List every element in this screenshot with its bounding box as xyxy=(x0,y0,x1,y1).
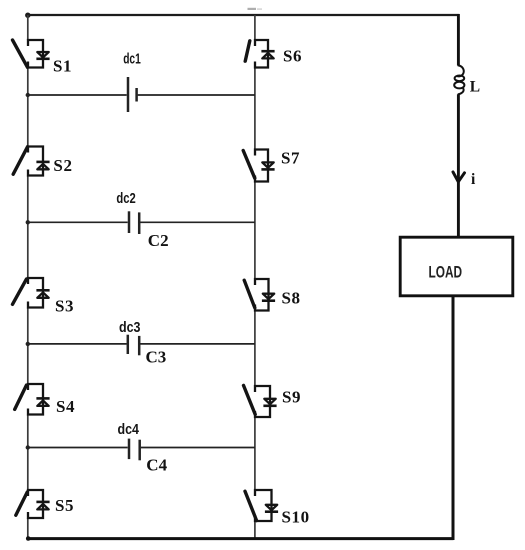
LOAD box xyxy=(400,237,513,296)
svg-text:S1: S1 xyxy=(53,57,72,76)
diode of S3 (pointing up) xyxy=(36,289,49,292)
decorative faint smudge above top rail xyxy=(248,8,257,10)
blade of S2 xyxy=(13,147,27,175)
svg-text:S6: S6 xyxy=(283,47,302,66)
switch S9 xyxy=(244,385,277,417)
capacitor dc4 / C4 xyxy=(28,439,255,461)
svg-text:i: i xyxy=(471,171,476,188)
svg-text:LOAD: LOAD xyxy=(429,263,463,282)
wire: middle column, rail to S6 xyxy=(254,15,256,40)
svg-text:C3: C3 xyxy=(146,348,167,367)
wire: left column, rail to S1 xyxy=(27,15,29,40)
switch S6 xyxy=(245,40,274,68)
svg-text:S2: S2 xyxy=(53,156,72,175)
switch S10 xyxy=(245,490,278,521)
svg-text:dc2: dc2 xyxy=(116,190,135,207)
wire: right branch, rail to inductor xyxy=(457,14,460,66)
wire: top rail xyxy=(27,14,459,16)
wire: middle column, S10 to bottom rail xyxy=(254,521,256,538)
svg-text:C2: C2 xyxy=(148,231,169,250)
svg-text:dc3: dc3 xyxy=(119,319,141,336)
svg-text:S4: S4 xyxy=(56,397,75,416)
diode of S10 (pointing down) xyxy=(266,505,277,510)
node: bottom-left corner dot xyxy=(26,536,31,541)
switch S8 xyxy=(244,279,275,311)
arrowhead: current direction i xyxy=(453,172,465,182)
svg-text:dc4: dc4 xyxy=(118,421,140,438)
switch S5 xyxy=(16,490,50,518)
svg-text:S9: S9 xyxy=(282,388,301,407)
switch S7 xyxy=(243,150,274,182)
svg-text:S10: S10 xyxy=(282,508,310,527)
wire: left column, S2 to S3 xyxy=(27,176,29,279)
diode of S6 (pointing up) xyxy=(261,50,274,53)
svg-text:S7: S7 xyxy=(281,149,300,168)
blade of S3 xyxy=(13,279,27,304)
capacitor dc1 xyxy=(28,77,255,112)
svg-text:S3: S3 xyxy=(55,296,74,315)
blade of S6 xyxy=(245,41,250,61)
blade of S4 xyxy=(15,385,27,409)
diode of S8 (pointing down) xyxy=(263,294,274,299)
wire: left column, S5 to bottom rail xyxy=(27,518,29,538)
wire: middle column, S6 to S7 xyxy=(254,68,256,150)
wire: middle column, S7 to S8 xyxy=(254,182,256,280)
svg-text:dc1: dc1 xyxy=(123,51,141,68)
blade of S10 xyxy=(245,491,257,520)
wire: left column, S1 to S2 xyxy=(27,68,29,147)
wire: right branch, inductor to LOAD xyxy=(457,94,460,236)
diode of S5 (pointing up) xyxy=(36,501,49,504)
switch S2 xyxy=(13,147,49,176)
blade of S1 xyxy=(13,40,28,67)
svg-text:C4: C4 xyxy=(146,455,167,474)
svg-text:S5: S5 xyxy=(55,496,74,515)
inductor L xyxy=(454,65,464,94)
wire: middle column, S9 to S10 xyxy=(254,417,256,490)
diode of S4 (pointing up) xyxy=(36,397,49,400)
blade of S9 xyxy=(244,385,256,414)
svg-text:L: L xyxy=(470,78,480,95)
node: junction of dc1 line with left column xyxy=(26,93,30,97)
node: junction of dc3 line with left column xyxy=(26,342,30,346)
node: junction of dc4 line with left column xyxy=(26,445,30,449)
wire: left column, S3 to S4 xyxy=(27,308,29,385)
diode of S1 (pointing down) xyxy=(37,52,48,57)
blade of S8 xyxy=(244,280,255,308)
node: junction of dc2 line with left column xyxy=(26,220,30,224)
diode of S9 (pointing down) xyxy=(264,399,275,404)
diode of S7 (pointing down) xyxy=(262,162,273,167)
switch S4 xyxy=(15,384,50,415)
blade of S7 xyxy=(243,151,255,179)
capacitor dc2 / C2 xyxy=(28,211,255,234)
switch S1 xyxy=(13,40,50,68)
diode of S2 (pointing up) xyxy=(36,161,49,164)
wire: left column, S4 to S5 xyxy=(27,415,29,491)
blade of S5 xyxy=(16,492,27,515)
switch S3 xyxy=(13,278,50,308)
wire: bottom rail xyxy=(27,537,453,540)
capacitor dc3 / C3 xyxy=(28,335,255,356)
node: top-left junction dot xyxy=(25,13,30,18)
wire: LOAD to bottom rail xyxy=(452,297,455,541)
wire: middle column, S8 to S9 xyxy=(254,311,256,387)
svg-text:S8: S8 xyxy=(282,289,301,308)
